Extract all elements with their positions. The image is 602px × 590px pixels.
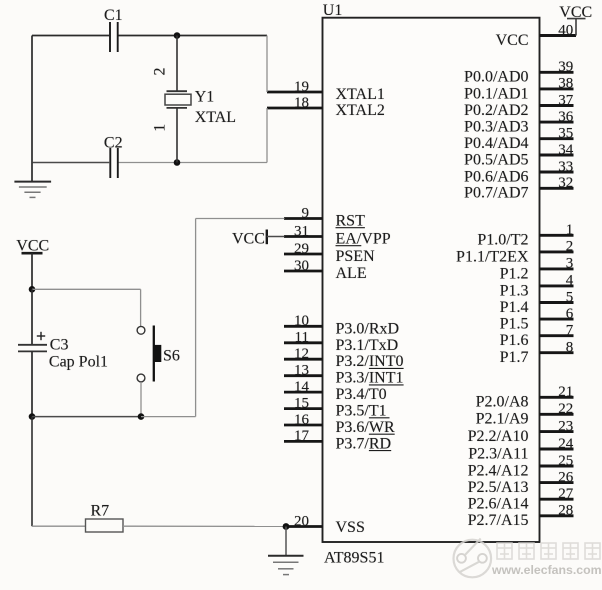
svg-text:VCC: VCC — [232, 230, 265, 247]
svg-text:P0.5/AD5: P0.5/AD5 — [464, 151, 528, 168]
svg-text:P3.5/T1: P3.5/T1 — [336, 403, 387, 420]
node VCC/C3/S6 junction — [29, 286, 36, 293]
wire pin 20 stub (VSS) — [286, 525, 323, 528]
wire bottom net C3 to S6 — [32, 416, 141, 418]
wire pin 18 stub (XTAL2) — [267, 107, 323, 110]
wire VCC to pin 40 — [575, 19, 577, 36]
svg-text:26: 26 — [558, 469, 574, 485]
wire pin 14 stub (P3.4/T0) — [284, 391, 323, 394]
svg-text:2: 2 — [566, 239, 574, 255]
svg-text:13: 13 — [294, 363, 309, 379]
svg-text:P2.2/A10: P2.2/A10 — [468, 428, 529, 445]
wire bottom net S6 to RST riser — [141, 416, 196, 418]
power VCC (top right) bar — [567, 18, 586, 20]
svg-text:P2.1/A9: P2.1/A9 — [476, 411, 529, 428]
wire pin 35 stub (P0.4/AD4) — [540, 137, 574, 140]
svg-text:40: 40 — [558, 22, 573, 38]
svg-text:9: 9 — [302, 205, 310, 221]
svg-text:C3: C3 — [50, 337, 69, 354]
svg-text:24: 24 — [558, 436, 574, 452]
svg-text:P3.4/T0: P3.4/T0 — [336, 386, 387, 403]
wire pin 3 stub (P1.2) — [540, 267, 574, 270]
watermark chinese characters (stylized) — [497, 543, 600, 559]
capacitor C3 (polarized) — [18, 289, 47, 416]
crystal Y1 — [165, 36, 191, 163]
wire pin 4 stub (P1.3) — [540, 284, 574, 287]
wire pin 28 stub (P2.7/A15) — [540, 514, 574, 517]
svg-text:12: 12 — [294, 346, 309, 362]
node junction top of Y1 — [174, 32, 181, 39]
svg-text:7: 7 — [566, 323, 574, 339]
wire pin 15 stub (P3.5/T1) — [284, 407, 323, 410]
wire VCC bar to pin 31 — [267, 236, 285, 238]
wire left vertical down to R7 — [31, 417, 33, 527]
svg-text:4: 4 — [566, 273, 574, 289]
wire pin 22 stub (P2.1/A9) — [540, 413, 574, 416]
svg-text:U1: U1 — [323, 2, 343, 19]
active-low bar for RST — [336, 227, 365, 229]
capacitor C1 — [110, 22, 118, 52]
svg-text:P0.0/AD0: P0.0/AD0 — [464, 69, 528, 86]
svg-text:RST: RST — [336, 213, 366, 230]
wire pin 37 stub (P0.2/AD2) — [540, 104, 574, 107]
wire pin 40 stub (VCC) — [540, 34, 577, 37]
svg-text:P2.4/A12: P2.4/A12 — [468, 462, 529, 479]
wire pin 5 stub (P1.4) — [540, 301, 574, 304]
svg-text:P1.3: P1.3 — [500, 282, 529, 299]
svg-text:21: 21 — [558, 384, 573, 400]
svg-text:1: 1 — [566, 222, 574, 238]
wire left vertical C1 to C2 — [31, 36, 33, 163]
wire pin 23 stub (P2.2/A10) — [540, 430, 574, 433]
svg-text:P1.2: P1.2 — [500, 265, 529, 282]
svg-text:VSS: VSS — [336, 519, 365, 536]
svg-text:P3.3/INT1: P3.3/INT1 — [336, 370, 404, 387]
svg-text:30: 30 — [294, 258, 309, 274]
wire S6 bottom to bottom net — [140, 382, 142, 417]
wire pin 8 stub (P1.7) — [540, 351, 574, 354]
wire pin 7 stub (P1.6) — [540, 334, 574, 337]
svg-text:P0.4/AD4: P0.4/AD4 — [464, 135, 528, 152]
wire VCC down to node — [31, 253, 33, 289]
svg-text:19: 19 — [294, 79, 309, 95]
svg-text:Cap Pol1: Cap Pol1 — [49, 353, 108, 370]
svg-text:5: 5 — [566, 289, 574, 305]
wire pin 19 stub (XTAL1) — [267, 91, 323, 94]
wire pin 17 stub (P3.7/RD) — [284, 440, 323, 443]
wire right branch from XTAL2 — [266, 108, 268, 163]
svg-text:P0.1/AD1: P0.1/AD1 — [464, 85, 528, 102]
wire pin 32 stub (P0.7/AD7) — [540, 187, 574, 190]
ground (crystal circuit) — [14, 163, 51, 198]
wire bottom net: C2 to XTAL2 branch — [32, 162, 267, 164]
active-low bar for P3.3/INT1 — [369, 384, 404, 386]
svg-text:PSEN: PSEN — [336, 248, 376, 265]
svg-text:P1.7: P1.7 — [500, 349, 529, 366]
svg-text:P1.6: P1.6 — [500, 332, 529, 349]
wire pin 10 stub (P3.0/RxD) — [284, 325, 323, 328]
power VCC (EA/VPP) bar — [266, 230, 268, 245]
wire pin 27 stub (P2.6/A14) — [540, 498, 574, 501]
wire pin 36 stub (P0.3/AD3) — [540, 121, 574, 124]
svg-text:22: 22 — [558, 401, 573, 417]
wire pin 16 stub (P3.6/WR) — [284, 424, 323, 427]
svg-text:1: 1 — [151, 124, 168, 132]
svg-text:P0.2/AD2: P0.2/AD2 — [464, 102, 528, 119]
wire pin 29 stub (PSEN) — [284, 253, 323, 256]
svg-text:15: 15 — [294, 395, 309, 411]
node C3 bottom junction — [29, 413, 36, 420]
svg-text:33: 33 — [558, 159, 573, 175]
svg-text:P1.5: P1.5 — [500, 316, 529, 333]
svg-text:P0.6/AD6: P0.6/AD6 — [464, 168, 528, 185]
svg-text:14: 14 — [294, 379, 310, 395]
svg-text:36: 36 — [558, 109, 574, 125]
wire pin 38 stub (P0.1/AD1) — [540, 87, 574, 90]
power VCC (reset circuit) bar — [22, 252, 43, 255]
resistor R7 — [86, 519, 124, 532]
ground (VSS) — [268, 527, 304, 575]
svg-text:20: 20 — [294, 513, 309, 529]
svg-text:8: 8 — [566, 340, 574, 356]
svg-text:18: 18 — [294, 95, 309, 111]
active-low bar for P3.2/INT0 — [369, 367, 404, 369]
svg-text:10: 10 — [294, 313, 309, 329]
wire pin 26 stub (P2.5/A13) — [540, 481, 574, 484]
svg-text:Y1: Y1 — [195, 89, 215, 106]
svg-text:XTAL: XTAL — [195, 109, 236, 126]
svg-text:35: 35 — [558, 126, 573, 142]
svg-text:P2.5/A13: P2.5/A13 — [468, 479, 529, 496]
svg-text:2: 2 — [151, 68, 168, 76]
svg-text:17: 17 — [294, 428, 310, 444]
svg-text:P2.3/A11: P2.3/A11 — [468, 445, 528, 462]
svg-text:P3.0/RxD: P3.0/RxD — [336, 320, 400, 337]
active-low bar for EA/VPP — [336, 245, 362, 247]
svg-text:39: 39 — [558, 59, 573, 75]
svg-text:VCC: VCC — [496, 32, 529, 49]
wire pin 34 stub (P0.5/AD5) — [540, 154, 574, 157]
wire R7 right lead to VSS node — [123, 525, 286, 527]
wire pin 31 stub (EA/VPP) — [284, 235, 323, 238]
wire pin 24 stub (P2.3/A11) — [540, 448, 574, 451]
svg-text:25: 25 — [558, 453, 573, 469]
wire pin 2 stub (P1.1/T2EX) — [540, 250, 574, 253]
node S6 bottom junction — [138, 413, 145, 420]
svg-text:31: 31 — [294, 223, 309, 239]
wire pin 39 stub (P0.0/AD0) — [540, 71, 574, 74]
svg-text:S6: S6 — [163, 347, 180, 364]
svg-text:34: 34 — [558, 142, 574, 158]
svg-text:P3.6/WR: P3.6/WR — [336, 419, 395, 436]
wire RST riser vertical — [195, 219, 197, 417]
wire pin 21 stub (P2.0/A8) — [540, 396, 574, 399]
svg-text:XTAL1: XTAL1 — [336, 86, 385, 103]
svg-text:P1.1/T2EX: P1.1/T2EX — [456, 248, 529, 265]
svg-text:16: 16 — [294, 412, 310, 428]
watermark logo circle — [454, 539, 492, 578]
wire pin 25 stub (P2.4/A12) — [540, 465, 574, 468]
svg-text:ALE: ALE — [336, 265, 367, 282]
wire pin 6 stub (P1.5) — [540, 318, 574, 321]
wire top net: C1 left to XTAL1 branch — [32, 35, 267, 37]
wire pin 33 stub (P0.6/AD6) — [540, 171, 574, 174]
plus sign of C3 — [37, 332, 45, 340]
svg-text:38: 38 — [558, 76, 573, 92]
wire right branch to XTAL1 — [266, 36, 268, 93]
svg-text:VCC: VCC — [16, 237, 49, 254]
wire pin 9 stub (RST) — [284, 217, 323, 220]
svg-text:P3.2/INT0: P3.2/INT0 — [336, 353, 404, 370]
svg-text:AT89S51: AT89S51 — [324, 550, 384, 567]
svg-text:6: 6 — [566, 306, 574, 322]
IC U1 body (AT89S51 microcontroller) — [323, 18, 540, 542]
wire pin 30 stub (ALE) — [284, 270, 323, 273]
svg-text:11: 11 — [295, 330, 309, 346]
svg-text:P1.4: P1.4 — [500, 299, 529, 316]
svg-text:3: 3 — [566, 256, 574, 272]
wire VCC node to switch branch — [32, 288, 141, 290]
switch S6 — [137, 326, 161, 382]
svg-text:R7: R7 — [91, 503, 110, 520]
node VSS junction — [283, 523, 290, 530]
svg-text:28: 28 — [558, 503, 573, 519]
svg-text:C1: C1 — [104, 7, 123, 24]
svg-text:P2.6/A14: P2.6/A14 — [468, 496, 529, 513]
capacitor C2 — [110, 148, 118, 178]
wire RST horizontal to pin 9 — [196, 218, 285, 220]
active-low bar for P3.5/T1 — [369, 417, 390, 419]
node junction bottom of Y1 — [174, 159, 181, 166]
svg-text:37: 37 — [558, 92, 574, 108]
svg-text:www.elecfans.com: www.elecfans.com — [491, 563, 602, 577]
svg-text:XTAL2: XTAL2 — [336, 102, 385, 119]
svg-text:27: 27 — [558, 486, 574, 502]
active-low bar for P3.7/RD — [369, 450, 391, 452]
svg-text:P0.3/AD3: P0.3/AD3 — [464, 119, 528, 136]
svg-text:P1.0/T2: P1.0/T2 — [477, 232, 528, 249]
svg-text:EA/VPP: EA/VPP — [336, 231, 391, 248]
wire pin 13 stub (P3.3/INT1) — [284, 374, 323, 377]
wire switch branch down to S6 — [140, 289, 142, 326]
active-low bar for P3.6/WR — [369, 433, 395, 435]
svg-text:23: 23 — [558, 418, 573, 434]
svg-text:P2.7/A15: P2.7/A15 — [468, 512, 529, 529]
wire pin 11 stub (P3.1/TxD) — [284, 341, 323, 344]
wire corner to R7 left lead — [32, 525, 86, 527]
svg-text:32: 32 — [558, 175, 573, 191]
wire pin 1 stub (P1.0/T2) — [540, 234, 574, 237]
svg-text:P0.7/AD7: P0.7/AD7 — [464, 185, 528, 202]
wire pin 12 stub (P3.2/INT0) — [284, 358, 323, 361]
svg-text:P3.7/RD: P3.7/RD — [336, 435, 392, 452]
svg-text:P2.0/A8: P2.0/A8 — [476, 394, 529, 411]
svg-text:29: 29 — [294, 241, 309, 257]
svg-text:C2: C2 — [104, 134, 123, 151]
svg-text:P3.1/TxD: P3.1/TxD — [336, 337, 399, 354]
